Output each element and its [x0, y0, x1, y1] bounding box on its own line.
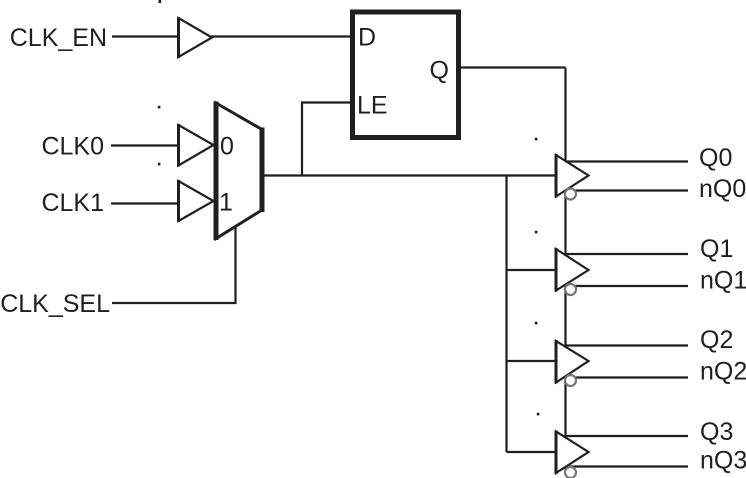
buffer U3 CLK1	[179, 180, 214, 222]
wire latch Q output	[459, 66, 566, 68]
wire stub to buffer U7	[507, 269, 558, 271]
svg-text:nQ3: nQ3	[700, 447, 746, 475]
wire stub to buffer U9	[507, 451, 558, 453]
wire nQ0 output	[569, 189, 688, 191]
svg-text:Q: Q	[430, 57, 449, 85]
wire Q2 output	[566, 344, 689, 346]
buffer U2 CLK0	[179, 124, 214, 167]
wire Q3 output	[566, 435, 689, 437]
wire Q1 output	[566, 253, 689, 255]
svg-text:CLK_SEL: CLK_SEL	[0, 290, 110, 318]
wire enable vertical net	[564, 68, 566, 472]
svg-text:LE: LE	[357, 92, 388, 120]
node dot F	[537, 413, 540, 416]
node dot A	[158, 106, 161, 109]
buffer U8 Q2	[556, 340, 589, 384]
wire stub to buffer U8	[507, 360, 558, 362]
svg-text:CLK1: CLK1	[41, 189, 104, 217]
wire nQ1 output	[569, 285, 688, 287]
buffer U6 Q0	[556, 154, 589, 198]
svg-text:nQ2: nQ2	[700, 358, 746, 386]
svg-text:Q0: Q0	[699, 144, 732, 172]
node dot E	[535, 322, 538, 325]
wire nQ2 output	[569, 376, 688, 378]
svg-text:nQ1: nQ1	[700, 267, 746, 295]
wire CLK1 input	[111, 202, 179, 204]
mux U4	[216, 102, 262, 241]
svg-text:Q3: Q3	[700, 418, 733, 446]
wire LE branch	[302, 103, 351, 176]
buffer U1 CLK_EN	[179, 17, 213, 58]
svg-text:1: 1	[219, 189, 233, 217]
buffer U7 Q1	[556, 248, 589, 292]
top edge tick mark	[159, 0, 162, 3]
svg-text:CLK0: CLK0	[41, 133, 104, 161]
node dot D	[535, 231, 538, 234]
inverter bubble on U8	[565, 375, 576, 386]
wire nQ3 output	[569, 465, 688, 467]
svg-text:0: 0	[220, 133, 234, 161]
wire CLK_SEL to mux select	[112, 226, 236, 303]
node dot B	[158, 163, 161, 166]
inverter bubble on U7	[565, 284, 576, 295]
svg-text:CLK_EN: CLK_EN	[10, 24, 107, 52]
svg-text:nQ0: nQ0	[699, 175, 746, 203]
svg-text:Q2: Q2	[700, 326, 733, 354]
wire CLK0 input	[111, 144, 179, 146]
buffer U9 Q3	[556, 431, 589, 475]
wire CLK_EN input	[112, 35, 179, 37]
wire buffer U1 output to D	[211, 35, 351, 37]
inverter bubble on U9	[565, 467, 576, 478]
inverter bubble on U6	[565, 189, 576, 200]
wire left clock bus vertical	[505, 176, 507, 453]
node dot C	[535, 138, 538, 141]
svg-text:Q1: Q1	[700, 235, 733, 263]
wire Q0 output	[566, 160, 689, 162]
latch U5	[353, 12, 459, 138]
svg-text:D: D	[358, 24, 376, 52]
wire mux output bus	[264, 174, 557, 176]
